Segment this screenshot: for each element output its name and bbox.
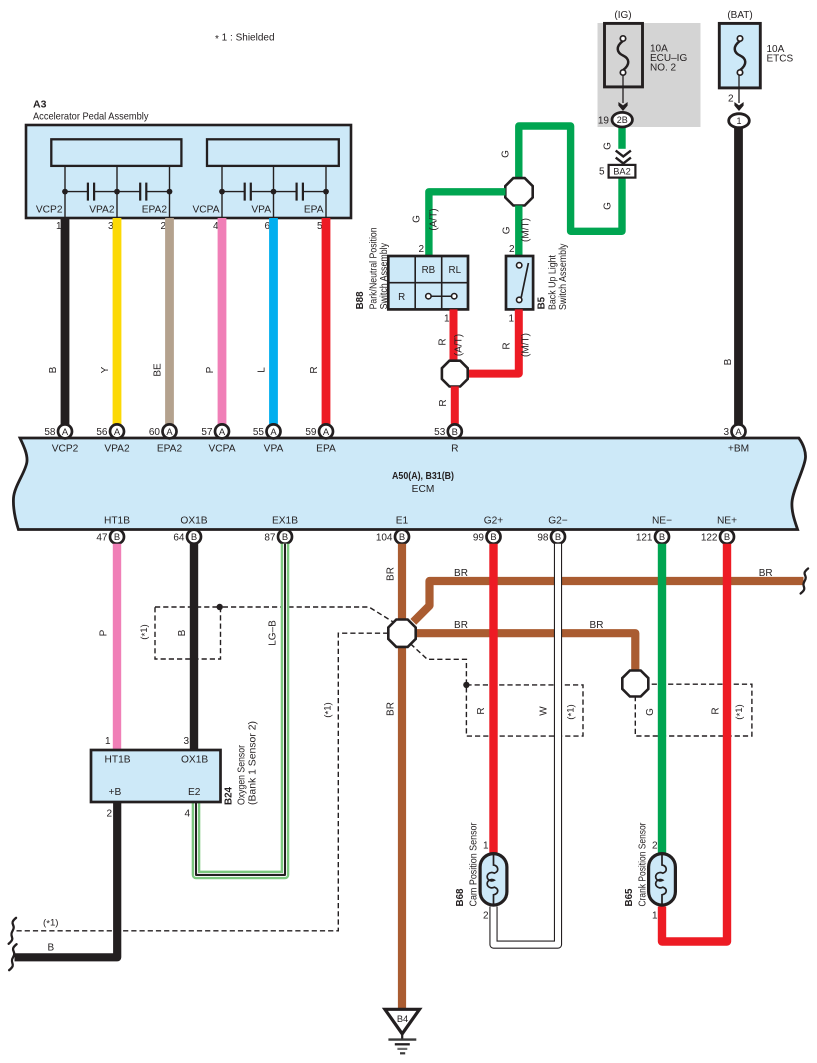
svg-text:VPA: VPA <box>251 205 271 216</box>
svg-text:98: 98 <box>537 532 549 543</box>
svg-text:B: B <box>399 531 405 542</box>
ECM pin 60 (A) <box>163 424 177 438</box>
svg-text:R: R <box>711 707 722 714</box>
svg-text:B68: B68 <box>455 888 466 907</box>
svg-text:G: G <box>502 226 513 234</box>
svg-text:P: P <box>205 366 216 373</box>
fuse 10A ETCS <box>719 23 760 88</box>
svg-text:EPA: EPA <box>304 205 324 216</box>
svg-text:(*1): (*1) <box>734 704 746 719</box>
wire L from A3 to ECM <box>269 218 278 424</box>
svg-text:E1: E1 <box>396 516 409 527</box>
shield box OX1B (*1) <box>155 607 221 659</box>
svg-text:Oxygen Sensor: Oxygen Sensor <box>237 744 248 805</box>
svg-text:99: 99 <box>473 532 485 543</box>
svg-text:1: 1 <box>444 314 450 325</box>
shield dot (cam) <box>463 682 469 688</box>
svg-text:(BAT): (BAT) <box>727 10 752 21</box>
svg-text:A50(A), B31(B): A50(A), B31(B) <box>392 471 454 482</box>
B5 Back Up Light Switch Assembly <box>506 256 533 309</box>
svg-text:VCP2: VCP2 <box>36 205 63 216</box>
wire R from A3 to ECM <box>322 218 331 424</box>
ECM pin 104 (B) <box>395 530 409 544</box>
wire B OX1B <box>190 544 198 750</box>
svg-text:NE−: NE− <box>652 516 672 527</box>
svg-text:B: B <box>48 366 59 373</box>
B88 Park/Neutral Position Switch Assembly <box>388 256 468 309</box>
ECM pin 59 (A) <box>319 424 333 438</box>
svg-text:VCPA: VCPA <box>209 444 236 455</box>
svg-text:OX1B: OX1B <box>181 755 208 766</box>
svg-text:(*1): (*1) <box>566 704 578 719</box>
svg-text:HT1B: HT1B <box>105 755 131 766</box>
svg-text:1: 1 <box>483 841 489 852</box>
svg-text:Switch Assembly: Switch Assembly <box>379 243 390 310</box>
svg-text:+BM: +BM <box>728 444 749 455</box>
svg-text:P: P <box>99 629 110 636</box>
svg-text:B24: B24 <box>224 786 235 805</box>
wire W G2- <box>494 544 559 945</box>
junction dots <box>62 189 68 195</box>
svg-text:1: 1 <box>508 314 514 325</box>
svg-text:* 1 : Shielded: * 1 : Shielded <box>215 33 275 46</box>
cam shield box (*1) <box>466 685 583 736</box>
svg-text:BA2: BA2 <box>613 167 631 177</box>
svg-text:EPA: EPA <box>316 444 336 455</box>
ECM pin 98 (B) <box>551 530 565 544</box>
svg-text:G: G <box>603 202 614 210</box>
splice junction (green) <box>505 178 532 205</box>
wire R from B88 pin 1 <box>450 309 458 361</box>
svg-text:+B: +B <box>109 787 122 798</box>
svg-text:RB: RB <box>422 265 436 276</box>
ECM pin 55 (A) <box>267 424 281 438</box>
svg-text:G2−: G2− <box>548 516 568 527</box>
svg-text:G: G <box>501 150 512 158</box>
svg-text:121: 121 <box>636 532 653 543</box>
svg-text:NE+: NE+ <box>717 516 737 527</box>
wire Y from A3 to ECM <box>113 218 122 424</box>
dashed shield wire from splice to cam shield <box>411 644 467 683</box>
svg-text:BR: BR <box>386 567 397 581</box>
svg-text:(*1): (*1) <box>139 624 151 639</box>
B88 switch contacts <box>431 295 452 297</box>
ground B4 <box>385 1009 420 1034</box>
wire B from +B to body ground <box>15 803 118 958</box>
svg-text:B: B <box>490 531 496 542</box>
fuse 10A ECU-IG NO.2 <box>605 23 643 87</box>
wire R G2+ <box>489 544 497 853</box>
svg-text:47: 47 <box>96 532 108 543</box>
shield-to-shield connector arrows <box>613 149 632 166</box>
svg-text:B: B <box>659 531 665 542</box>
wire R from B5 pin 1 <box>468 309 519 373</box>
svg-text:B5: B5 <box>537 296 548 309</box>
svg-text:W: W <box>539 706 550 716</box>
svg-text:(*1): (*1) <box>323 702 335 717</box>
svg-text:VCPA: VCPA <box>193 205 220 216</box>
wire BR lower branch <box>416 633 636 670</box>
ECM pin 121 (B) <box>655 530 669 544</box>
svg-text:1: 1 <box>105 736 111 747</box>
svg-text:Accelerator Pedal Assembly: Accelerator Pedal Assembly <box>33 112 149 123</box>
svg-text:53: 53 <box>434 427 446 438</box>
svg-text:A3: A3 <box>33 99 47 111</box>
svg-text:A: A <box>62 426 69 437</box>
dashed shield wire to bottom-left (*1) <box>14 633 388 931</box>
svg-text:ECM: ECM <box>412 484 435 495</box>
svg-text:VPA: VPA <box>264 444 284 455</box>
ECM A50(A), B31(B) <box>13 438 805 530</box>
wire fuse to connector 2B <box>622 75 624 103</box>
svg-text:RL: RL <box>449 265 462 276</box>
svg-text:A: A <box>323 426 330 437</box>
wire G NE- <box>658 544 666 853</box>
svg-text:B88: B88 <box>355 291 366 310</box>
wire B +BM (black) <box>734 128 743 425</box>
svg-text:HT1B: HT1B <box>104 516 130 527</box>
svg-text:BR: BR <box>759 568 773 579</box>
junction-block gray box <box>598 23 701 127</box>
svg-text:BE: BE <box>153 363 164 377</box>
wire G (A/T) to B88 <box>429 192 506 255</box>
wire BR E1 upper <box>398 544 406 620</box>
splice junction (shield, brown) <box>622 671 648 697</box>
svg-text:EPA2: EPA2 <box>142 205 168 216</box>
wire BE from A3 to ECM <box>165 218 174 424</box>
svg-text:59: 59 <box>305 427 317 438</box>
svg-text:1: 1 <box>652 911 658 922</box>
svg-text:R: R <box>476 707 487 714</box>
wire P HT1B <box>113 544 121 750</box>
svg-text:2: 2 <box>728 94 734 105</box>
svg-text:104: 104 <box>376 532 393 543</box>
svg-text:BR: BR <box>590 620 604 631</box>
connector 1 <box>729 114 750 128</box>
svg-text:Crank Position Sensor: Crank Position Sensor <box>638 822 649 907</box>
svg-text:3: 3 <box>723 427 729 438</box>
splice junction E1 <box>388 620 415 647</box>
svg-text:B: B <box>114 531 120 542</box>
wire G from connector 2B (S-route) <box>519 124 622 231</box>
svg-text:R: R <box>502 342 513 349</box>
svg-text:2: 2 <box>509 244 515 255</box>
svg-text:B: B <box>452 426 458 437</box>
svg-text:3: 3 <box>183 736 189 747</box>
svg-text:19: 19 <box>598 116 610 127</box>
svg-text:E2: E2 <box>188 787 201 798</box>
ECM pin 99 (B) <box>487 530 501 544</box>
svg-text:Y: Y <box>100 366 111 373</box>
svg-text:G: G <box>412 215 423 223</box>
wire LG-B EX1B <box>196 544 285 875</box>
A3 internal stubs <box>64 166 66 218</box>
ECM pin 58 (A) <box>58 424 72 438</box>
ECM pin 57 (A) <box>215 424 229 438</box>
svg-text:B: B <box>555 531 561 542</box>
svg-text:Park/Neutral Position: Park/Neutral Position <box>369 227 380 309</box>
B24 Oxygen Sensor (Bank 1 Sensor 2) <box>91 750 221 802</box>
wire BR to ground <box>398 647 406 1009</box>
svg-text:(A/T): (A/T) <box>429 208 440 230</box>
wire R to ECM pin 53 <box>451 386 459 424</box>
svg-text:(Bank 1 Sensor 2): (Bank 1 Sensor 2) <box>248 721 259 805</box>
svg-text:A: A <box>735 426 742 437</box>
svg-text:R: R <box>398 292 405 303</box>
svg-text:B65: B65 <box>624 888 635 907</box>
wire P from A3 to ECM <box>218 218 227 424</box>
B5 switch symbol <box>521 263 528 298</box>
svg-text:R: R <box>309 366 320 373</box>
svg-text:1: 1 <box>736 116 741 126</box>
svg-text:G: G <box>603 142 614 150</box>
svg-text:EX1B: EX1B <box>272 516 298 527</box>
ECM pin 47 (B) <box>110 530 124 544</box>
svg-text:A: A <box>270 426 277 437</box>
svg-text:55: 55 <box>253 427 265 438</box>
svg-text:122: 122 <box>701 532 718 543</box>
ECM pin 3 (A) <box>732 424 746 438</box>
shield drain dashed wire to splice <box>223 607 393 622</box>
svg-text:2B: 2B <box>617 115 628 125</box>
svg-text:B4: B4 <box>397 1014 408 1024</box>
svg-text:R: R <box>438 399 449 406</box>
svg-text:LG–B: LG–B <box>268 620 279 646</box>
svg-text:Switch Assembly: Switch Assembly <box>558 243 569 310</box>
B65 Crank Position Sensor <box>649 854 676 906</box>
svg-text:B: B <box>723 358 734 365</box>
svg-text:B: B <box>282 531 288 542</box>
svg-text:B: B <box>48 943 55 954</box>
svg-text:(*1): (*1) <box>43 918 58 930</box>
svg-text:58: 58 <box>44 427 56 438</box>
svg-text:NO. 2: NO. 2 <box>650 63 677 74</box>
svg-text:64: 64 <box>173 532 185 543</box>
svg-text:5: 5 <box>599 167 605 178</box>
svg-text:R: R <box>451 444 458 455</box>
svg-text:B: B <box>191 531 197 542</box>
wire fuse to connector 1 <box>738 75 740 103</box>
svg-text:R: R <box>438 338 449 345</box>
ECM pin 53 (B) <box>448 424 462 438</box>
svg-text:OX1B: OX1B <box>180 516 207 527</box>
svg-text:VCP2: VCP2 <box>52 444 79 455</box>
crank shield box (*1) <box>635 684 752 736</box>
wire BR diagonal to right (upper) <box>413 581 803 622</box>
svg-text:(IG): (IG) <box>614 10 631 21</box>
A3 inner sensor block 1 <box>51 139 181 166</box>
svg-text:(M/T): (M/T) <box>521 333 532 357</box>
svg-text:(M/T): (M/T) <box>521 218 532 242</box>
wire R NE+ <box>662 544 727 942</box>
svg-text:Cam Position Sensor: Cam Position Sensor <box>469 822 480 907</box>
svg-text:BR: BR <box>454 568 468 579</box>
svg-text:EPA2: EPA2 <box>157 444 183 455</box>
svg-text:VPA2: VPA2 <box>104 444 130 455</box>
svg-text:A: A <box>166 426 173 437</box>
svg-text:2: 2 <box>652 841 658 852</box>
capacitor symbols row <box>65 191 88 193</box>
svg-text:G: G <box>645 708 656 716</box>
svg-text:BR: BR <box>386 702 397 716</box>
B68 Cam Position Sensor <box>480 854 507 906</box>
svg-text:60: 60 <box>149 427 161 438</box>
svg-text:56: 56 <box>96 427 108 438</box>
svg-text:57: 57 <box>201 427 213 438</box>
shield drain dot <box>217 604 223 610</box>
svg-text:B: B <box>177 629 188 636</box>
svg-text:2: 2 <box>106 809 112 820</box>
svg-text:G2+: G2+ <box>484 516 504 527</box>
svg-text:2: 2 <box>483 911 489 922</box>
A3 inner sensor block 2 <box>207 139 339 166</box>
svg-text:4: 4 <box>184 809 190 820</box>
ECM pin 87 (B) <box>278 530 292 544</box>
svg-text:BR: BR <box>454 620 468 631</box>
wire G (M/T) to B5 <box>515 206 522 256</box>
svg-text:A: A <box>219 426 226 437</box>
svg-text:87: 87 <box>264 532 276 543</box>
svg-text:ETCS: ETCS <box>767 54 794 65</box>
wire break symbol <box>801 569 809 594</box>
svg-text:VPA2: VPA2 <box>89 205 115 216</box>
svg-text:2: 2 <box>418 244 424 255</box>
splice junction (red) <box>442 361 468 387</box>
svg-text:B: B <box>724 531 730 542</box>
svg-text:(A/T): (A/T) <box>454 334 465 356</box>
ECM pin 122 (B) <box>720 530 734 544</box>
svg-text:Back Up Light: Back Up Light <box>548 255 559 310</box>
wire B from A3 to ECM <box>61 218 70 424</box>
svg-text:A: A <box>114 426 121 437</box>
ECM pin 56 (A) <box>110 424 124 438</box>
svg-text:L: L <box>257 367 268 373</box>
ECM pin 64 (B) <box>187 530 201 544</box>
